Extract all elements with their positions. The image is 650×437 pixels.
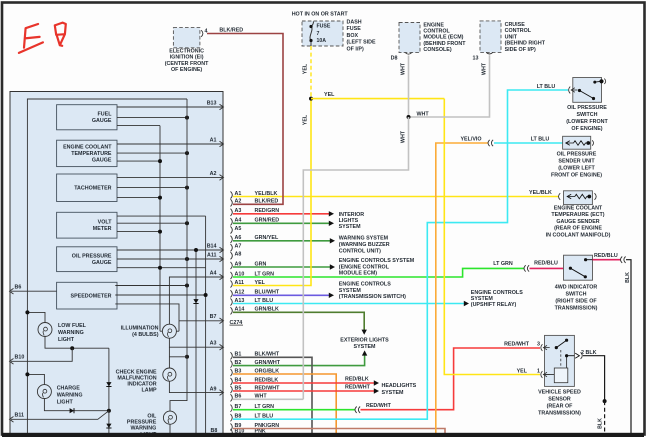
svg-text:HEADLIGHTS: HEADLIGHTS <box>382 383 417 389</box>
svg-text:BLK: BLK <box>625 272 631 283</box>
svg-text:MODULE ECM): MODULE ECM) <box>339 270 378 276</box>
wire FUEL GAUGE to pin B13 <box>117 106 223 108</box>
svg-text:YEL: YEL <box>303 63 309 74</box>
4WD indicator switch <box>564 255 593 280</box>
svg-text:ENGINE: ENGINE <box>423 22 444 28</box>
connector C274 pin A6 GRN/YEL <box>231 236 233 243</box>
svg-text:3: 3 <box>537 341 540 347</box>
connector C274 pin A12 BLU/WHT <box>231 290 233 297</box>
bus V1 ground <box>159 126 161 332</box>
svg-text:(LOWER FRONT: (LOWER FRONT <box>566 119 608 125</box>
svg-text:LT BLU: LT BLU <box>531 137 550 143</box>
svg-text:SENSOR: SENSOR <box>548 396 571 402</box>
wire B5 RED/WHT <box>233 390 374 392</box>
svg-text:CONTROL: CONTROL <box>505 28 532 34</box>
svg-text:OF I/P): OF I/P) <box>347 47 364 53</box>
svg-text:IGNITION (EI): IGNITION (EI) <box>170 55 204 61</box>
gauge OIL PRESSURE GAUGE <box>57 247 117 272</box>
svg-text:FUSE: FUSE <box>317 24 331 30</box>
wire node to bus V4 <box>168 347 170 368</box>
svg-text:CONTROL: CONTROL <box>423 29 450 35</box>
svg-text:SYSTEM: SYSTEM <box>382 390 405 396</box>
svg-text:OIL PRESSURE: OIL PRESSURE <box>72 254 112 260</box>
node charge/diode junction <box>107 409 111 413</box>
engine control module ECM box <box>399 23 420 53</box>
svg-text:WHT: WHT <box>401 130 407 143</box>
wire FUEL GAUGE mid to bus V4 <box>117 117 187 119</box>
wire A4 GRN/RED <box>233 222 329 224</box>
svg-text:OIL: OIL <box>147 414 157 420</box>
wire OIL PRESSURE GAUGE bottom to buses V1 V6 <box>117 267 206 269</box>
junction dots bus V4 <box>185 116 189 120</box>
svg-text:SYSTEM: SYSTEM <box>354 344 377 350</box>
connector C274 pin A8 <box>231 252 233 259</box>
wire node down to bottom with diode D4 <box>108 411 110 437</box>
wire TACHOMETER to pin A2 <box>117 176 223 178</box>
svg-text:TEMPERAURE (ECT): TEMPERAURE (ECT) <box>551 212 604 218</box>
wire RED/BLU from 4WD switch <box>593 259 621 261</box>
svg-text:ENGINE COOLANT: ENGINE COOLANT <box>554 206 603 212</box>
node fuse YEL junction <box>309 97 313 101</box>
lamp CHARGE WARNING LIGHT <box>27 374 44 385</box>
svg-text:VEHICLE SPEED: VEHICLE SPEED <box>538 389 581 395</box>
svg-text:CHARGE: CHARGE <box>57 385 81 391</box>
svg-text:GAUGE: GAUGE <box>92 158 112 164</box>
wire B9 PNK/GRN <box>233 429 445 437</box>
connector C274 pin B7 LT GRN <box>231 405 233 412</box>
wire A14 GRN/BLK to exterior lights <box>233 312 364 330</box>
wire B10 PNK <box>233 433 445 435</box>
svg-text:(TRANSMISSION SWITCH): (TRANSMISSION SWITCH) <box>339 294 406 300</box>
svg-text:ENGINE COOLANT: ENGINE COOLANT <box>63 145 112 151</box>
diode D2 charge line <box>70 408 74 413</box>
wire A2 BLK/RED from EI <box>207 34 283 205</box>
svg-text:RED/BLU: RED/BLU <box>534 260 558 266</box>
svg-text:RED/BLU: RED/BLU <box>594 253 618 259</box>
wire YEL/VIO to oil pressure sender <box>436 143 488 437</box>
svg-text:WARNING: WARNING <box>130 426 156 432</box>
svg-text:INTERIOR: INTERIOR <box>339 212 365 218</box>
connector C274 pin A7 <box>231 244 233 251</box>
svg-text:WARNING: WARNING <box>58 330 84 336</box>
svg-text:A2: A2 <box>210 171 217 177</box>
cluster pin B6 <box>10 288 14 294</box>
svg-text:7: 7 <box>317 31 320 37</box>
cluster pin A4 <box>220 274 224 280</box>
wire pin B10 to low fuel node <box>11 348 72 361</box>
svg-text:(LOWER LEFT: (LOWER LEFT <box>558 165 595 171</box>
svg-text:ILLUMINATION: ILLUMINATION <box>121 326 159 332</box>
inline connector oil pressure sender <box>488 140 493 146</box>
svg-text:RED/WHT: RED/WHT <box>504 342 530 348</box>
svg-text:CONSOLE): CONSOLE) <box>423 47 451 53</box>
bottom border bar <box>2 433 644 437</box>
svg-text:LIGHT: LIGHT <box>57 399 74 405</box>
wire charge lamp to diode node <box>44 398 107 411</box>
svg-text:4WD INDICATOR: 4WD INDICATOR <box>555 285 598 291</box>
svg-text:UNIT: UNIT <box>505 34 518 40</box>
svg-text:FRONT OF ENGINE): FRONT OF ENGINE) <box>551 172 602 178</box>
vss pin 2 wire BLK <box>565 354 568 357</box>
svg-text:FUSE: FUSE <box>347 26 362 32</box>
svg-text:(REAR OF: (REAR OF <box>547 404 574 410</box>
engine coolant temperature gauge sender <box>564 191 593 205</box>
cluster pin A2 <box>220 175 224 181</box>
gauge ENGINE COOLANT TEMPERATURE GAUGE <box>57 140 117 166</box>
wire LT BLU to oil pressure sender <box>494 142 563 144</box>
svg-text:A3: A3 <box>210 341 217 347</box>
cruise control unit box <box>480 21 501 53</box>
connector C274 pin B2 GRN/WHT <box>231 361 233 368</box>
svg-text:PRESSURE: PRESSURE <box>127 420 157 426</box>
svg-text:OIL PRESSURE: OIL PRESSURE <box>567 105 607 111</box>
wire ECT gauge bottom to bus V1 <box>117 160 160 162</box>
wire node to pin B11 <box>11 411 109 420</box>
svg-text:SWITCH: SWITCH <box>576 112 597 118</box>
svg-text:A7: A7 <box>235 244 242 250</box>
svg-text:GAUGE SENDER: GAUGE SENDER <box>556 219 599 225</box>
svg-text:A4: A4 <box>210 270 217 276</box>
lamp CHECK ENGINE MALFUNCTION INDICATOR LAMP <box>163 368 176 381</box>
svg-text:A5: A5 <box>235 226 242 232</box>
connector C274 pin B6 WHT <box>231 394 233 401</box>
inline connector A10 <box>524 265 529 271</box>
svg-text:RED/BLK: RED/BLK <box>345 376 369 382</box>
svg-text:FUEL: FUEL <box>98 112 113 118</box>
svg-text:CRUISE: CRUISE <box>505 22 526 28</box>
svg-text:YEL: YEL <box>324 92 335 98</box>
connector C274 pin A10 LT GRN <box>231 272 233 279</box>
svg-text:BLK: BLK <box>598 418 604 429</box>
wire A9 GRN <box>233 266 330 268</box>
lamp LOW FUEL WARNING LIGHT <box>27 312 45 323</box>
svg-text:SIDE OF I/P): SIDE OF I/P) <box>505 47 536 53</box>
cluster pin B11 <box>10 417 14 423</box>
wire OIL PRESSURE GAUGE to pin B14 <box>117 249 223 251</box>
svg-text:GAUGE: GAUGE <box>92 260 112 266</box>
wire RED/BLU to 4WD switch <box>530 267 564 269</box>
wire B3 ORG/BLK <box>233 374 336 437</box>
svg-text:B13: B13 <box>207 100 217 106</box>
gauge VOLT METER <box>57 212 117 238</box>
wire A13 LT BLU <box>233 303 464 305</box>
wire WHT from ECM <box>408 56 410 118</box>
svg-text:OIL PRESSURE: OIL PRESSURE <box>557 151 597 157</box>
wire VOLT METER mid to bus V4 <box>117 222 187 224</box>
inline connector 4WD <box>621 257 626 263</box>
dash fuse box <box>302 21 343 46</box>
svg-text:SYSTEM: SYSTEM <box>339 224 362 230</box>
svg-text:ENGINE CONTROLS: ENGINE CONTROLS <box>339 281 391 287</box>
wire VOLT METER bottom to bus V1 <box>117 231 160 233</box>
svg-text:BOX: BOX <box>347 33 359 39</box>
svg-text:(BEHIND FRONT: (BEHIND FRONT <box>423 41 466 47</box>
diode D1 on bus V5 <box>193 299 198 303</box>
bus V2 lamp chain from pin A4 <box>169 277 223 324</box>
svg-text:METER: METER <box>93 226 112 232</box>
svg-text:(RIGHT SIDE OF: (RIGHT SIDE OF <box>555 298 597 304</box>
svg-text:SYSTEM: SYSTEM <box>339 288 362 294</box>
svg-text:SPEEDOMETER: SPEEDOMETER <box>71 293 112 299</box>
connector C274 pin A13 LT BLU <box>231 298 233 305</box>
svg-text:WHT: WHT <box>401 62 407 75</box>
svg-text:TEMPERATURE: TEMPERATURE <box>71 151 112 157</box>
svg-text:WHT: WHT <box>482 62 488 75</box>
connector C274 pin A4 GRN/RED <box>231 218 233 225</box>
wire SPEEDOMETER mid to bus V6 <box>115 294 205 296</box>
svg-text:YEL/VIO: YEL/VIO <box>460 137 481 143</box>
svg-text:10A: 10A <box>317 38 327 44</box>
svg-text:IN COOLANT MANIFOLD): IN COOLANT MANIFOLD) <box>546 232 611 238</box>
svg-text:LT BLU: LT BLU <box>537 84 556 90</box>
svg-text:A11: A11 <box>207 252 217 258</box>
wire A10 LT GRN to 4WD switch <box>233 268 524 277</box>
svg-text:LIGHTS: LIGHTS <box>339 218 359 224</box>
wire A3 RED/GRN <box>233 213 329 215</box>
wire B1 BLK/WHT <box>233 357 312 437</box>
wire YEL down to vehicle speed sensor <box>444 99 540 375</box>
wire A11 YEL from fuse <box>233 99 311 286</box>
svg-text:B14: B14 <box>207 243 217 249</box>
svg-text:ENGINE CONTROLS SYSTEM: ENGINE CONTROLS SYSTEM <box>339 258 415 264</box>
svg-text:B11: B11 <box>15 413 25 419</box>
svg-text:(UPSHIFT RELAY): (UPSHIFT RELAY) <box>471 302 517 308</box>
svg-text:(LEFT SIDE: (LEFT SIDE <box>347 40 377 46</box>
wire SPEEDOMETER left to pin B6 <box>11 290 57 292</box>
vss pickup coil square <box>554 368 568 383</box>
connector C274 pin B3 ORG/BLK <box>231 369 233 376</box>
svg-text:13: 13 <box>473 55 479 61</box>
connector C274 pin A9 GRN <box>231 262 233 269</box>
wire ECT gauge to pin A1 <box>117 143 223 145</box>
wire FUEL GAUGE bottom to bus V1 <box>117 125 160 127</box>
wire YEL horizontal to right <box>311 98 444 100</box>
svg-text:TRANSMISSION): TRANSMISSION) <box>538 411 581 417</box>
vehicle speed sensor <box>545 335 575 386</box>
svg-text:B10: B10 <box>15 355 25 361</box>
svg-text:(REAR OF ENGINE: (REAR OF ENGINE <box>554 226 602 232</box>
svg-text:SENDER UNIT: SENDER UNIT <box>558 158 595 164</box>
svg-text:HOT IN ON OR START: HOT IN ON OR START <box>292 12 349 18</box>
bus V5 with diode <box>195 250 197 437</box>
red handwritten EP mark <box>19 24 43 53</box>
svg-text:RED/WHT: RED/WHT <box>345 384 371 390</box>
lamp OIL PRESSURE WARNING LIGHT <box>163 411 176 424</box>
wire OIL PRESSURE GAUGE mid to pin A11 <box>117 258 223 260</box>
connector C274 pin A5 <box>231 226 233 233</box>
svg-text:YEL: YEL <box>303 114 309 125</box>
svg-text:WARNING SYSTEM: WARNING SYSTEM <box>339 235 389 241</box>
connector C274 pin A1 YEL/BLK <box>231 191 233 198</box>
cluster pin B10 <box>10 359 14 365</box>
svg-text:CONTROL UNIT): CONTROL UNIT) <box>339 248 381 254</box>
svg-text:GAUGE: GAUGE <box>92 118 112 124</box>
wire low fuel node down with diode D3 <box>108 348 110 411</box>
svg-text:B7: B7 <box>210 314 217 320</box>
connector C274 pin B8 LT BLU <box>231 414 233 421</box>
connector C274 pin A11 YEL <box>231 280 233 287</box>
svg-text:1: 1 <box>537 368 540 374</box>
svg-text:RED/WHT: RED/WHT <box>366 403 392 409</box>
wire B7 LT GRN <box>233 409 355 411</box>
wire A12 BLU/WHT <box>233 294 329 296</box>
svg-text:OF ENGINE): OF ENGINE) <box>171 67 202 73</box>
junction dots bus V1 <box>158 159 162 163</box>
cluster pin A1 <box>220 141 224 147</box>
cluster pin B14 <box>220 247 224 253</box>
instrument cluster box <box>10 92 223 437</box>
svg-text:A8: A8 <box>235 252 242 258</box>
svg-text:LIGHT: LIGHT <box>58 337 75 343</box>
gauge FUEL GAUGE <box>57 105 117 130</box>
svg-text:2 BLK: 2 BLK <box>581 350 597 356</box>
svg-text:LAMP: LAMP <box>141 387 157 393</box>
connector C274 pin B9 PNK/GRN <box>231 423 233 430</box>
svg-text:ELECTRONIC: ELECTRONIC <box>169 49 204 55</box>
svg-text:WARNING: WARNING <box>57 392 83 398</box>
wire WHT down to B6 <box>303 117 408 399</box>
wire B8 LT BLU to oil pressure switch <box>233 90 568 419</box>
connector C274 pin B1 BLK/WHT <box>231 352 233 359</box>
inline connector B7 <box>355 407 360 413</box>
svg-text:BLK/RED: BLK/RED <box>219 28 243 34</box>
node WHT junction <box>407 115 411 119</box>
svg-text:A9: A9 <box>210 386 217 392</box>
cluster pin B7 <box>220 318 224 324</box>
gauge TACHOMETER <box>57 174 117 202</box>
svg-text:MODULE (ECM): MODULE (ECM) <box>423 35 463 41</box>
cluster pin B13 <box>220 104 224 110</box>
wire illumination lamp to pin A3 <box>169 338 223 347</box>
svg-text:(ENGINE CONTROL: (ENGINE CONTROL <box>339 264 390 270</box>
svg-text:EXTERIOR LIGHTS: EXTERIOR LIGHTS <box>340 337 389 343</box>
oil pressure sender unit <box>563 136 591 149</box>
wire YEL fuse dashed segment <box>310 46 312 99</box>
svg-text:B6: B6 <box>15 285 22 291</box>
svg-text:4: 4 <box>205 28 208 34</box>
connector C274 pin A2 BLK/RED <box>231 199 233 206</box>
lamp ILLUMINATION (4 BULBS) <box>162 324 176 338</box>
electronic ignition EI box <box>173 28 200 48</box>
svg-text:(BEHIND RIGHT: (BEHIND RIGHT <box>505 41 546 47</box>
svg-text:(WARNING BUZZER: (WARNING BUZZER <box>339 242 390 248</box>
svg-text:SWITCH: SWITCH <box>565 292 586 298</box>
wire B4 RED/BLK <box>233 382 374 384</box>
connector C274 pin B10 PNK <box>231 429 233 436</box>
connector C274 pin A3 RED/GRN <box>231 209 233 216</box>
cluster inner box <box>27 99 187 437</box>
junction dot bus V5 <box>194 248 198 252</box>
wire SPEEDOMETER top to bus V4 <box>115 285 187 287</box>
wire SPEEDOMETER bottom to bus V3 <box>115 304 179 331</box>
svg-text:(4 BULBS): (4 BULBS) <box>132 332 159 338</box>
svg-text:LOW FUEL: LOW FUEL <box>58 323 87 329</box>
wire check engine lamp to pin A9 <box>169 381 223 393</box>
wire ECT gauge mid to bus V4 <box>117 152 187 154</box>
svg-text:TRANSMISSION): TRANSMISSION) <box>555 305 598 311</box>
svg-text:WHT: WHT <box>417 111 430 117</box>
cluster pin A11 <box>220 256 224 262</box>
connector C274 pin A14 GRN/BLK <box>231 307 233 314</box>
wire B6 WHT from ECM <box>233 398 303 400</box>
wire TACHOMETER bottom to bus V1 <box>117 197 160 199</box>
wire B2 GRN/WHT to exterior lights <box>233 355 365 366</box>
junction dots bus V6 <box>204 293 208 297</box>
svg-text:(CENTER FRONT: (CENTER FRONT <box>165 61 209 67</box>
vss pin2 to coil link <box>566 356 568 368</box>
wire WHT from cruise control <box>409 55 490 117</box>
bus V4 jog to oil pressure lamp <box>170 99 187 411</box>
connector C274 pin B5 RED/WHT <box>231 386 233 393</box>
connector C274 pin B4 RED/BLK <box>231 378 233 385</box>
svg-text:D8: D8 <box>391 55 398 61</box>
wire TACHOMETER mid to bus V4 <box>117 187 187 189</box>
wire BLK from 4WD down right side <box>626 260 631 437</box>
svg-text:DASH: DASH <box>347 19 362 25</box>
wire VOLT METER top to bus V6 <box>117 215 206 217</box>
svg-text:VOLT: VOLT <box>98 220 113 226</box>
fuse 7 10A symbol <box>310 22 314 47</box>
wire bus V3 to pin B7 <box>179 320 223 322</box>
svg-text:OF ENGINE): OF ENGINE) <box>571 126 602 132</box>
svg-text:YEL/BLK: YEL/BLK <box>529 190 552 196</box>
svg-text:A1: A1 <box>210 137 217 143</box>
gauge SPEEDOMETER <box>57 282 117 309</box>
wire A6 GRN/YEL <box>233 240 330 242</box>
bus V6 <box>205 216 207 437</box>
svg-text:TACHOMETER: TACHOMETER <box>74 185 111 191</box>
svg-text:LT GRN: LT GRN <box>493 261 513 267</box>
oil pressure switch <box>573 78 602 103</box>
wire A1 YEL/BLK to ECT sender <box>233 196 559 198</box>
svg-text:YEL: YEL <box>517 369 528 375</box>
